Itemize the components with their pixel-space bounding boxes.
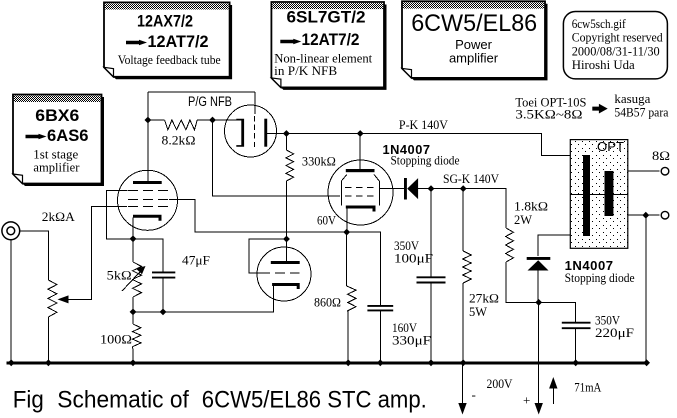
svg-text:860Ω: 860Ω [314,295,341,310]
wire OPT primary bottom to D2 [538,235,583,256]
svg-text:FigSchematic of6CW5/EL86 STC a: FigSchematic of6CW5/EL86 STC amp. [13,387,427,414]
resistor 27k [463,251,472,283]
svg-text:P/G NFB: P/G NFB [188,94,232,109]
junction B+ node [535,299,542,306]
wire V1 g1 from wiper [68,207,127,300]
tube V2 12AX7 envelope [225,105,277,157]
svg-text:2kΩA: 2kΩA [42,209,76,224]
tube V3 plate [271,261,300,264]
wire V1 screen loop to 6CW5 cathode [169,200,347,233]
junction 6CW5 cathode node [343,229,350,236]
tube V3 cathode [272,283,300,289]
wire node B to 6CW5 grid [213,120,341,196]
wire pot bottom to bus [47,317,49,363]
resistor 860R [347,286,356,315]
junction node B 8.2k / V2 [209,117,216,124]
svg-text:12AT7/2: 12AT7/2 [148,33,209,51]
current 71mA arrow [552,383,554,404]
svg-text:200V: 200V [487,376,514,391]
tube V4 6CW5 envelope [328,160,393,225]
resistor 5k variable [133,262,142,297]
svg-text:71mA: 71mA [574,380,602,395]
resistor 330k [286,150,294,181]
svg-text:12AX7/2: 12AX7/2 [137,12,193,30]
wire OPT secondary bottom to terminal [613,214,659,216]
svg-text:Hiroshi Uda: Hiroshi Uda [572,57,635,72]
svg-text:220μF: 220μF [595,325,634,340]
transformer OPT primary bar [583,155,590,236]
tube V3 grid dashed [260,272,299,274]
svg-text:60V: 60V [317,213,337,228]
wire 860R bottom stub [347,315,349,363]
wire 6CW5 screen to diode D1 [379,188,404,190]
junction V1 plate / 8.2k [145,117,152,124]
wire V3 plate lead [286,239,288,261]
junction 6CW5 plate [357,130,364,137]
svg-text:5kΩ: 5kΩ [107,268,132,283]
wire 100R top stub [132,312,134,324]
svg-text:54B57 para: 54B57 para [614,105,668,120]
capacitor 47uF [152,272,175,277]
junction bus 100uF [428,359,435,366]
svg-text:Stopping diode: Stopping diode [565,270,635,285]
junction 5k / 100R node [130,309,137,316]
svg-text:47μF: 47μF [182,253,210,268]
wire 330uF bottom [379,311,381,363]
ground bus [7,361,649,364]
wire 860R top stub [346,232,348,286]
capacitor 100uF [417,277,446,282]
output terminal bottom [661,211,669,219]
svg-text:6SL7GT/2: 6SL7GT/2 [287,8,366,26]
svg-text:2W: 2W [514,212,533,227]
capacitor 220uF [562,323,591,329]
wire B+ to supply plus arrow [538,302,540,404]
svg-text:5W: 5W [469,304,488,319]
diode D2 1N4007 triangle [528,260,549,270]
svg-text:100μF: 100μF [394,251,433,266]
note tag: 6BX6 first stage [13,95,104,187]
wire D1 to SG-K line [418,189,506,228]
transformer OPT shaded box [570,140,628,249]
resistor 8.2k [165,120,198,130]
output terminal top [661,167,669,175]
tube V2 plate [264,119,267,147]
svg-text:3.5KΩ~8Ω: 3.5KΩ~8Ω [515,107,582,122]
svg-text:amplifier: amplifier [33,160,80,175]
note tag: 6CW5/EL86 power amplifier [402,1,548,80]
tube V1 plate [133,181,162,184]
diode D1 1N4007 triangle [407,178,418,199]
tube V4 grid g1 row [345,186,374,188]
svg-text:6CW5/EL86: 6CW5/EL86 [411,10,537,37]
wire jack to pot [20,231,49,280]
wire 330k bottom to node D [285,181,287,239]
resistor 100R [133,324,142,351]
junction SG-K / 27k [460,185,467,192]
tube V1 grid g1 [128,206,168,208]
note tag: 6SL7GT non-linear element [271,2,386,90]
kasuga fat arrow [592,104,607,114]
junction V2 plate / 330k [283,130,290,137]
svg-text:amplifier: amplifier [449,51,499,66]
tube V3 6SL7 envelope [257,247,311,301]
capacitor 330uF [367,306,393,311]
resistor 5k adjust arrow [122,272,140,291]
wire node D grid loop of V3 [249,239,287,273]
potentiometer 2k body [48,280,57,317]
tube V1 grid g3 [128,190,168,192]
transformer OPT core line [570,194,628,196]
svg-text:SG-K 140V: SG-K 140V [443,171,500,186]
wire V1 cathode lead [132,218,134,239]
tube V1 grid g2 [128,199,168,201]
wire 1.8k bottom to B+ node [506,262,539,302]
svg-text:Stopping diode: Stopping diode [391,153,460,168]
svg-text:12AT7/2: 12AT7/2 [302,31,360,49]
svg-text:6BX6: 6BX6 [35,107,79,125]
diode D1 1N4007 cathode bar [404,178,407,200]
svg-text:Voltage feedback tube: Voltage feedback tube [118,52,221,67]
wire V2 grid lead down [254,92,256,114]
tube V2 grid dashed [253,116,255,147]
tube V2 cathode bracket [236,119,244,147]
note tag: 12AX7 voltage feedback tube [104,2,232,79]
transformer OPT secondary bar [605,171,614,216]
wire OPT secondary top to terminal [613,170,659,172]
wire cathode node to 330uF [347,232,381,305]
potentiometer 2k wiper arrow [58,295,69,303]
svg-text:P-K 140V: P-K 140V [399,117,449,132]
supply minus arrowhead [458,403,466,415]
wire 100uF bottom [430,283,432,363]
tube V4 cathode [346,206,376,212]
wire 8.2k right stub to V2 cathode [197,119,241,121]
junction bus pot [45,359,52,366]
junction bus jack [8,359,15,366]
tube V4 grid g2 row [345,195,374,197]
input jack outer [2,222,20,240]
tube V4 plate [346,169,375,172]
junction bus 330uF [377,359,384,366]
svg-text:100Ω: 100Ω [100,332,132,347]
wire secondary return to bus [645,215,647,363]
tube V1 6BX6 envelope [118,170,178,230]
wire P/G NFB loop top [148,91,255,93]
diode D2 1N4007 cathode bar [527,257,551,260]
junction SG-K / 100uF [428,185,435,192]
wire 100uF top [430,189,432,277]
tube V4 beam plate right [374,175,379,206]
wire 330k top stub [285,134,287,151]
junction bus 220uF [572,359,579,366]
svg-text:OPT: OPT [597,139,624,154]
wire V1 plate lead up [147,92,149,182]
svg-text:+: + [523,393,530,408]
input jack inner [7,227,15,235]
wire 220uF bottom [575,329,577,363]
wire V1 g3 tie to cathode [107,191,133,239]
svg-text:330kΩ: 330kΩ [302,154,336,169]
junction V1 cathode node [130,235,137,242]
junction node D plate-grid V3 [283,236,290,243]
svg-text:in P/K NFB: in P/K NFB [274,63,337,78]
copyright box [563,12,667,79]
wire 27k top [462,189,464,251]
wire 8.2k left stub [148,119,165,121]
wire 27k bottom [462,283,464,363]
svg-text:330μF: 330μF [392,333,431,348]
wire 100R bottom stub [132,351,134,363]
wire D2 anode to B+ node [537,271,539,303]
wire 47uF bottom [162,278,164,312]
wire 6CW5 cathode lead [346,209,348,233]
wire 5k bottom stub [132,297,134,312]
wire V2 plate to P-K line [267,134,583,156]
tube V4 beam plate left [341,175,346,206]
junction secondary return [642,212,649,219]
svg-text:-: - [472,387,476,402]
wire 5k top stub [132,239,134,262]
tube V1 cathode [133,215,162,221]
svg-text:8.2kΩ: 8.2kΩ [162,133,196,148]
wire B+ node to 220uF [539,302,576,322]
supply plus arrowhead [535,403,543,415]
svg-text:6AS6: 6AS6 [47,127,89,145]
junction 47uF / NFB node [160,309,167,316]
resistor 1.8k [506,228,514,262]
wire 6CW5 plate lead [359,134,361,170]
svg-text:8Ω: 8Ω [652,148,670,163]
junction bus 860R [345,359,352,366]
wire jack ground [10,240,12,363]
junction bus secondary [643,359,650,366]
wire V3 cathode lead to 47uF node [133,286,273,312]
wire supply minus drop [462,363,464,404]
junction bus 100R [130,359,137,366]
wire 47uF top [133,239,163,272]
junction bus 27k [460,359,467,366]
